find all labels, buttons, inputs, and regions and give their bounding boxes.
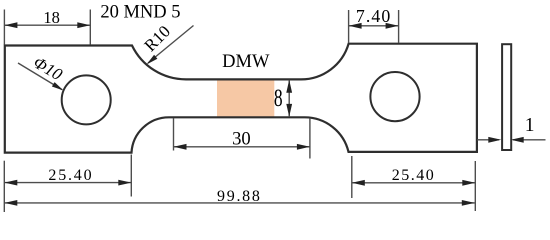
svg-text:18: 18	[43, 8, 60, 27]
svg-text:7.40: 7.40	[356, 6, 392, 26]
dim 30 extension lines and dimension line	[174, 118, 310, 159]
R10 leader	[148, 26, 194, 64]
left hole	[62, 75, 111, 124]
dim 18 arrows	[4, 22, 17, 28]
dim 18 extension lines and dimension line	[4, 10, 90, 45]
dim 7.40 arrows	[349, 23, 362, 29]
right hole	[370, 72, 419, 121]
side view plate (thickness 1)	[502, 44, 511, 150]
DMW weld zone (orange fill)	[217, 80, 274, 116]
dim 7.40 extension lines and dimension line	[349, 10, 399, 43]
svg-text:99.88: 99.88	[217, 188, 262, 205]
dim 99.88 line	[4, 202, 475, 204]
dim 1 arrow lines	[477, 139, 499, 141]
svg-text:R10: R10	[141, 22, 174, 55]
svg-text:30: 30	[232, 129, 251, 150]
dim 25.40 left arrows	[4, 180, 17, 186]
dim 30 arrows	[174, 144, 187, 150]
svg-text:25.40: 25.40	[392, 167, 436, 184]
dim 25.40 right extension lines and dimension line	[352, 156, 476, 211]
Phi10 leader	[18, 63, 62, 90]
dim 25.40 left extension lines and dimension line	[4, 155, 131, 213]
dim 8 arrow line	[288, 80, 290, 117]
svg-text:Φ10: Φ10	[30, 53, 66, 85]
dim 25.40 right arrows	[352, 180, 365, 186]
svg-text:20 MND 5: 20 MND 5	[100, 2, 180, 22]
dim 99.88 arrows	[4, 200, 17, 206]
svg-text:1: 1	[525, 115, 535, 136]
svg-text:DMW: DMW	[222, 52, 270, 72]
svg-text:8: 8	[274, 84, 283, 112]
specimen outline	[5, 44, 477, 153]
svg-text:25.40: 25.40	[48, 167, 93, 184]
